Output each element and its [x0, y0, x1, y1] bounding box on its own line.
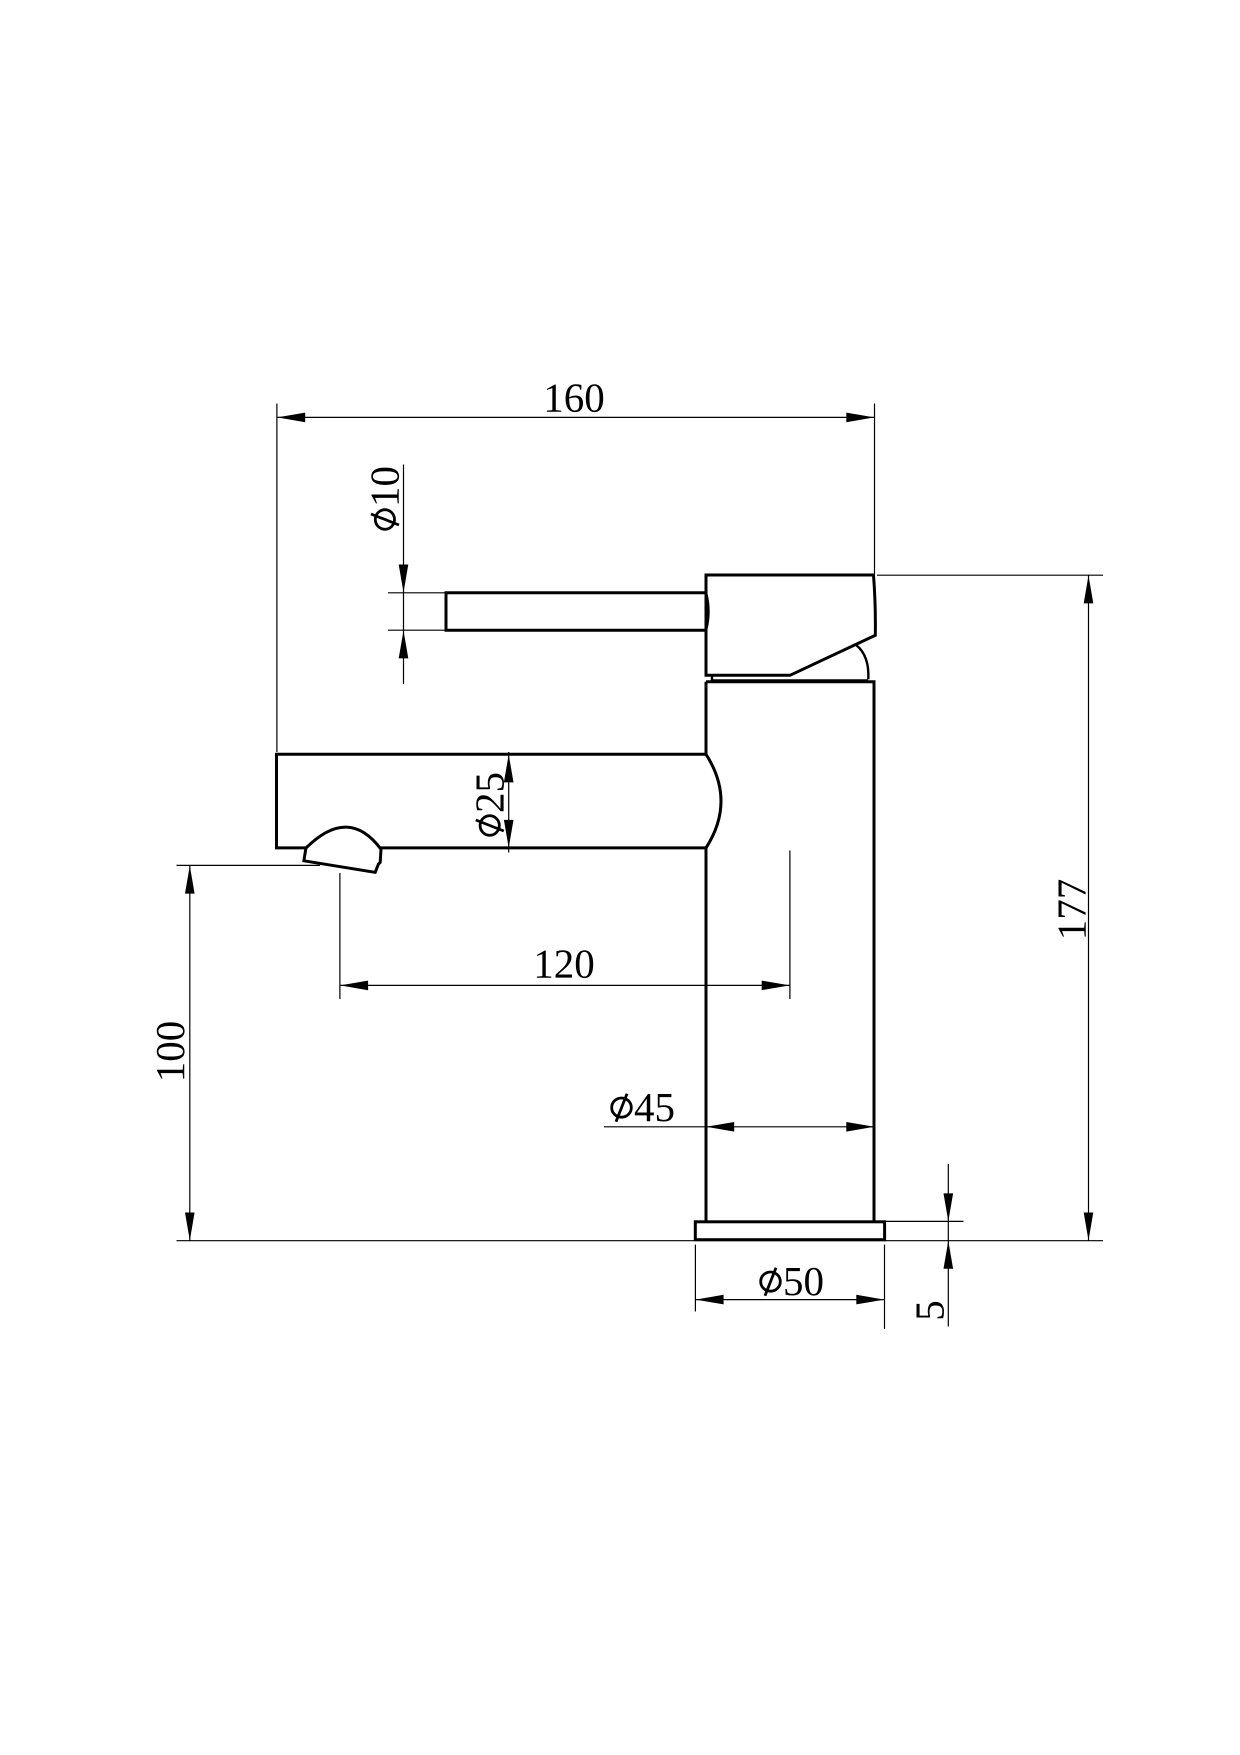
base plate: [695, 1222, 884, 1240]
dim phi10 lower arrow: [399, 630, 409, 658]
dim phi25 upper arrow: [504, 754, 514, 782]
cartridge gap line: [713, 679, 868, 681]
dim phi45 right arrow: [846, 1122, 874, 1132]
dim 177 line: [1088, 575, 1090, 1240]
dim phi10 bottom extension line: [388, 629, 446, 631]
dim phi10 line: [403, 465, 405, 685]
dim phi45 line: [604, 1126, 875, 1128]
svg-text:25: 25: [466, 772, 512, 813]
dim 5 top extension line: [885, 1220, 964, 1222]
dim phi50 left arrow: [696, 1295, 724, 1305]
faucet body column: [706, 682, 874, 1222]
dim 160 right arrow: [846, 413, 874, 423]
dim 160 right extension line: [874, 404, 876, 574]
handle body: [706, 575, 875, 675]
cartridge step: [711, 675, 713, 682]
dim 177 upper arrow: [1084, 575, 1094, 603]
svg-text:5: 5: [907, 1300, 953, 1321]
svg-text:160: 160: [543, 374, 605, 420]
dim 120 line: [340, 984, 790, 986]
aerator dome: [306, 827, 381, 849]
dim phi50 label: [761, 1258, 824, 1304]
svg-text:177: 177: [1048, 879, 1094, 941]
dim 160 line: [277, 416, 875, 418]
aerator tip: [304, 848, 381, 872]
dim phi50 right arrow: [856, 1295, 884, 1305]
dim 100 lower arrow: [185, 1213, 195, 1241]
dim 120 left extension line: [339, 873, 341, 999]
dim phi50 right extension line: [884, 1245, 886, 1329]
spout/body intersection bulge: [706, 754, 721, 848]
dim 5 text: [907, 1300, 953, 1321]
dim 120 left arrow: [340, 981, 368, 991]
dim phi25 label: [466, 772, 512, 835]
dim phi10 top extension line: [388, 592, 446, 594]
bottom reference line: [177, 1240, 1104, 1242]
svg-text:10: 10: [362, 466, 408, 507]
dim 160 left arrow: [277, 413, 305, 423]
dim phi25 lower arrow: [504, 820, 514, 848]
dim 100 text: [147, 1021, 193, 1083]
dim 5 lower arrow: [944, 1241, 954, 1269]
dim 160 left extension line: [276, 404, 278, 753]
dim 120 right arrow: [762, 981, 790, 991]
dim 5 upper arrow: [944, 1193, 954, 1221]
dim phi10 upper arrow: [399, 565, 409, 593]
lever/body junction arc: [707, 595, 709, 629]
dim 120 right extension line: [789, 851, 791, 1000]
dim phi10 label: [362, 466, 408, 529]
dim 100 upper arrow: [185, 866, 195, 894]
dim 5 line: [947, 1164, 949, 1327]
dim phi50 left extension line: [694, 1245, 696, 1312]
spout: [277, 754, 707, 848]
svg-text:100: 100: [147, 1021, 193, 1083]
dim phi50 line: [695, 1299, 884, 1301]
svg-text:45: 45: [634, 1084, 675, 1130]
dim 100 line: [189, 865, 191, 1240]
dim 100 top extension line: [177, 864, 321, 866]
svg-text:120: 120: [533, 941, 595, 987]
dim phi45 label: [612, 1084, 675, 1130]
faucet lever handle bar: [446, 593, 707, 631]
dim 177 text: [1048, 879, 1094, 941]
dim 177 lower arrow: [1084, 1213, 1094, 1241]
dim 177 top extension line: [877, 574, 1103, 576]
dim phi45 left arrow: [706, 1122, 734, 1132]
dim phi25 line: [508, 752, 510, 853]
handle tilt arc: [857, 645, 869, 679]
svg-text:50: 50: [783, 1258, 824, 1304]
